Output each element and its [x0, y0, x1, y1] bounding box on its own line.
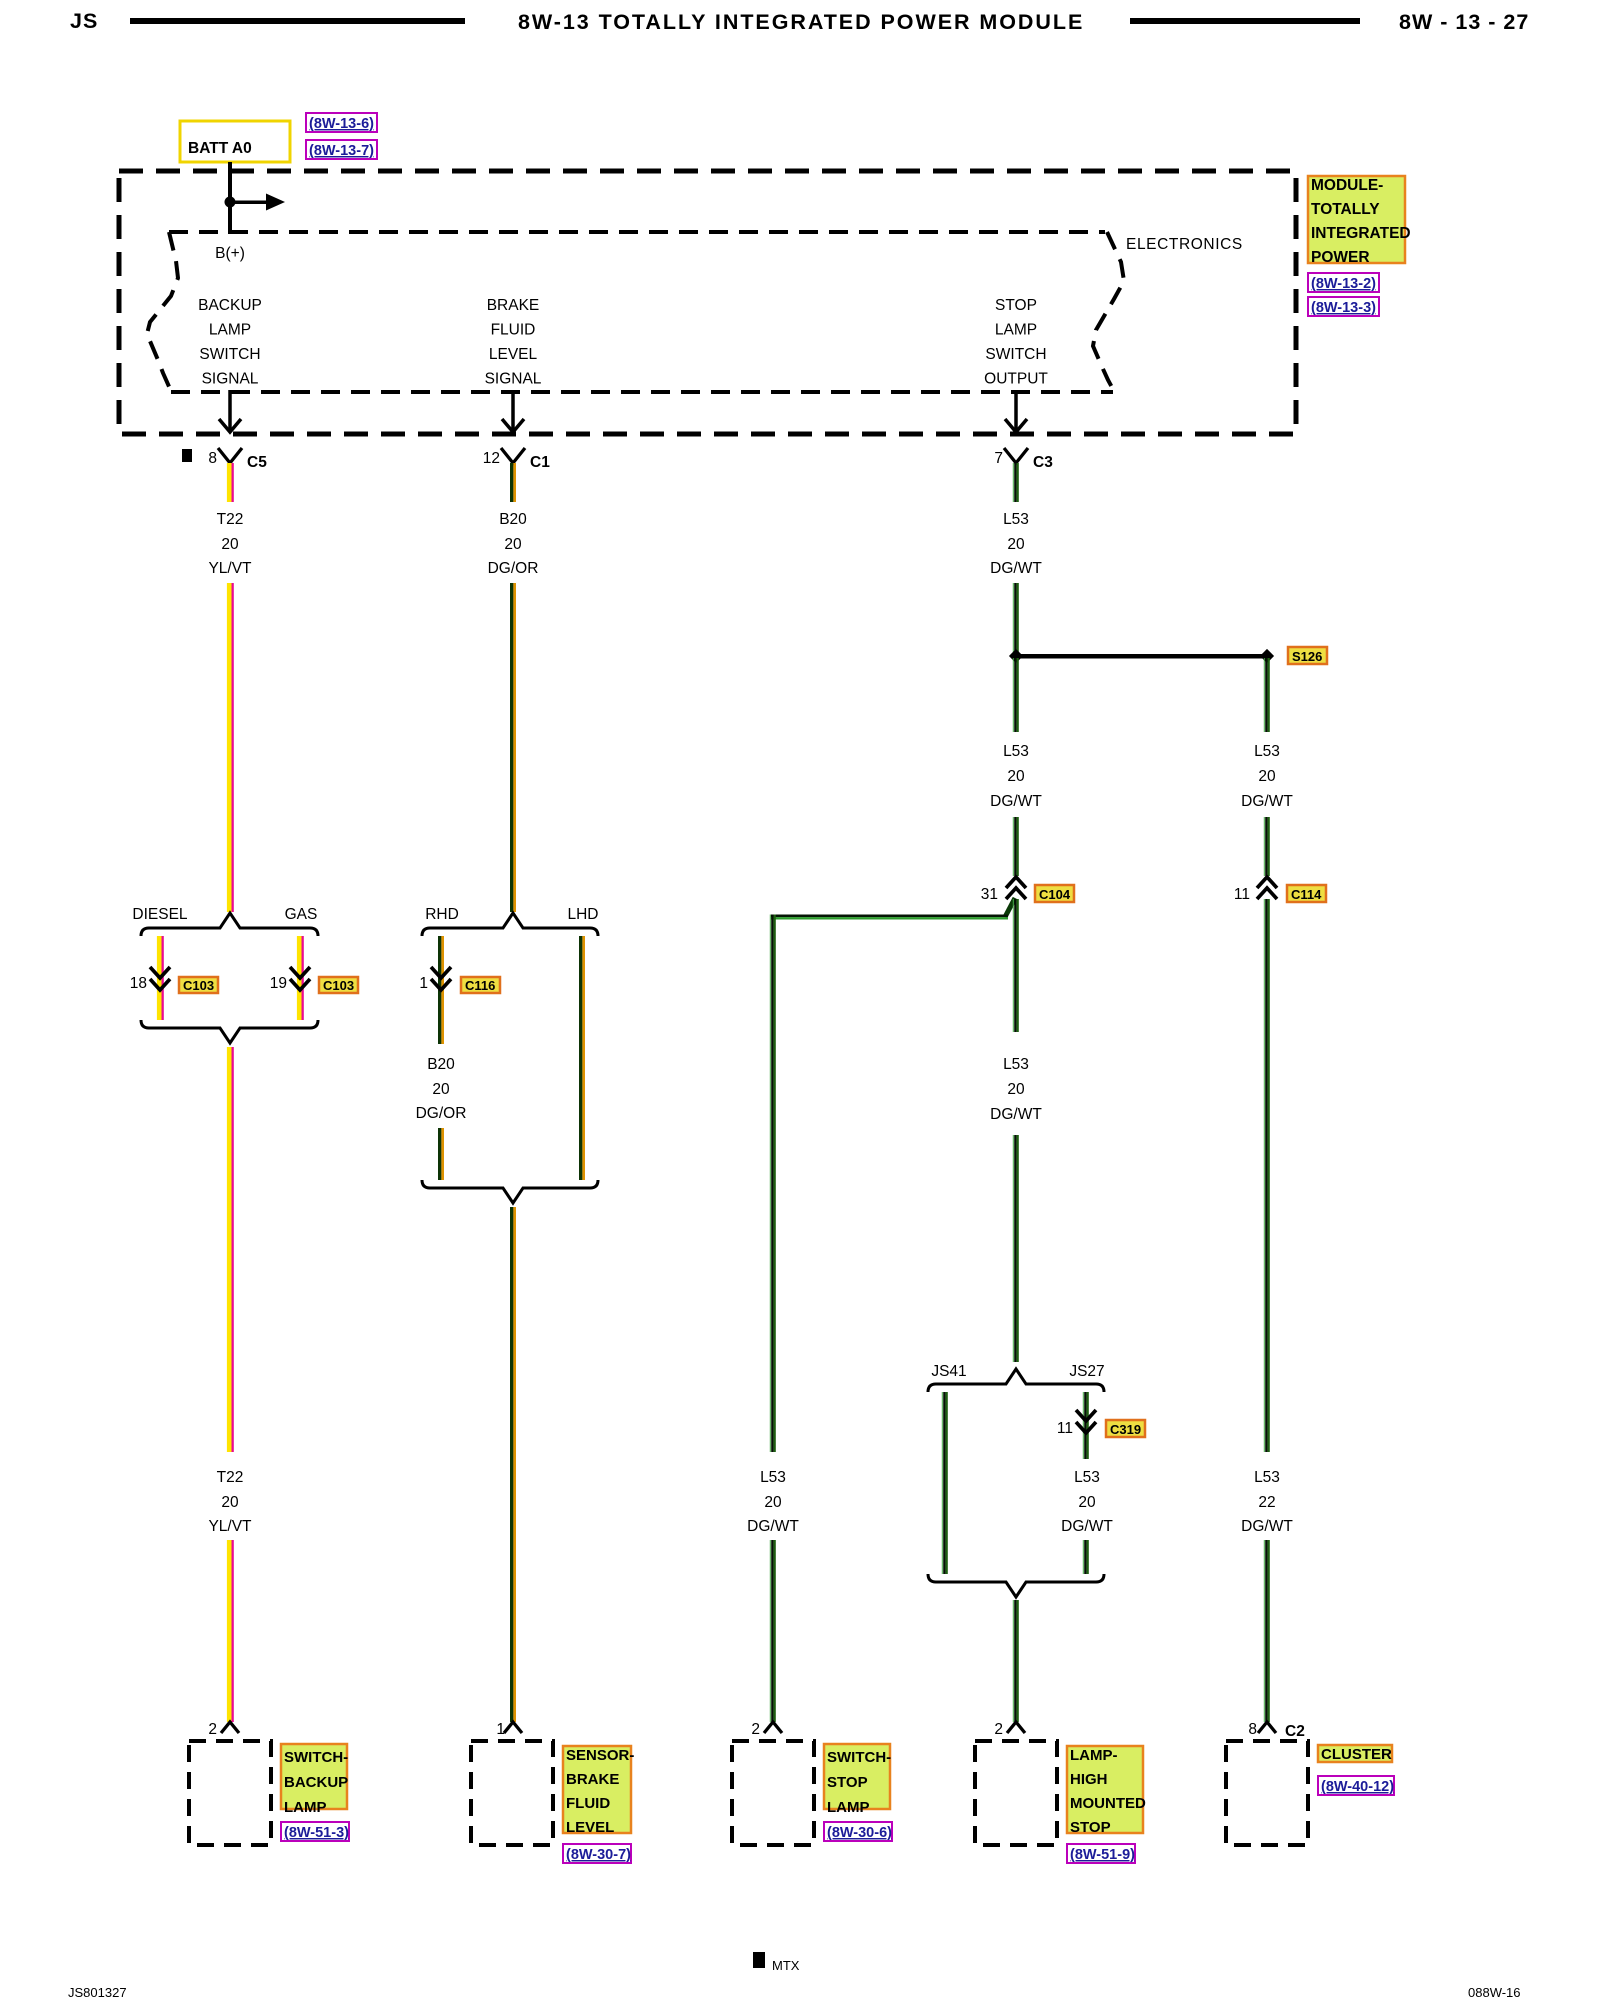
svg-text:FLUID: FLUID — [491, 322, 536, 339]
svg-text:T22: T22 — [217, 1469, 244, 1486]
wire B20 20 DG/OR upper segment — [510, 463, 516, 502]
node B+ junction — [225, 197, 236, 208]
svg-text:LAMP: LAMP — [995, 322, 1037, 339]
wire L53 20 DG/WT upper segment — [1013, 463, 1019, 502]
svg-text:2: 2 — [208, 1721, 217, 1738]
svg-text:11: 11 — [1234, 886, 1250, 903]
component label SENSOR-BRAKE FLUID LEVEL — [563, 1746, 631, 1833]
splice S126 — [1016, 654, 1267, 659]
svg-text:HIGH: HIGH — [1070, 1771, 1108, 1788]
svg-text:STOP: STOP — [1070, 1819, 1111, 1836]
svg-text:LHD: LHD — [567, 906, 598, 923]
brace diesel/gas split — [141, 913, 318, 936]
module label MODULE-TOTALLY INTEGRATED POWER — [1308, 176, 1405, 263]
svg-text:L53: L53 — [1003, 1056, 1029, 1073]
svg-text:C5: C5 — [247, 454, 267, 471]
wire L53 20 DG/WT to splice — [1013, 583, 1019, 656]
svg-text:18: 18 — [130, 975, 147, 992]
svg-text:C3: C3 — [1033, 454, 1053, 471]
svg-text:INTEGRATED: INTEGRATED — [1311, 225, 1411, 242]
svg-text:BRAKE: BRAKE — [566, 1771, 619, 1788]
wire lhd branch — [579, 936, 585, 1180]
svg-text:(8W-13-7): (8W-13-7) — [309, 143, 374, 159]
link 8W-30-6 — [824, 1822, 892, 1841]
svg-text:STOP: STOP — [827, 1774, 868, 1791]
link 8W-13-7 — [306, 140, 377, 159]
svg-text:8W - 13 - 27: 8W - 13 - 27 — [1399, 10, 1529, 34]
wire L53 20 DG/WT to JS split — [1013, 1135, 1019, 1362]
link 8W-51-9 — [1067, 1844, 1135, 1863]
svg-text:FLUID: FLUID — [566, 1795, 610, 1812]
svg-text:C103: C103 — [323, 978, 354, 993]
brace rhd/lhd merge — [422, 1180, 598, 1203]
svg-text:TOTALLY: TOTALLY — [1311, 201, 1380, 218]
wire L53 20 DG/WT below C104 — [1013, 899, 1019, 1032]
svg-text:(8W-13-3): (8W-13-3) — [1311, 300, 1376, 316]
wire stop lamp switch vertical to label — [770, 915, 776, 1453]
svg-text:20: 20 — [221, 536, 239, 553]
svg-text:20: 20 — [221, 1494, 239, 1511]
svg-text:CLUSTER: CLUSTER — [1321, 1746, 1392, 1763]
svg-text:(8W-30-6): (8W-30-6) — [827, 1825, 892, 1841]
svg-text:20: 20 — [504, 536, 522, 553]
wire L53 20 DG/WT into C104 — [1013, 817, 1019, 876]
svg-text:DG/WT: DG/WT — [990, 793, 1042, 810]
wire BATT A0 feed into module — [228, 162, 232, 234]
link 8W-13-2 — [1308, 273, 1379, 292]
module internal connector torn left edge — [147, 232, 178, 391]
svg-text:8: 8 — [1248, 1721, 1257, 1738]
ground reference square — [182, 449, 192, 462]
battery feed box BATT A0 — [180, 121, 290, 162]
svg-text:20: 20 — [1258, 768, 1276, 785]
wire L53 to lamp-high mounted stop — [1013, 1600, 1019, 1722]
svg-text:BACKUP: BACKUP — [284, 1774, 348, 1791]
svg-text:MTX: MTX — [772, 1958, 800, 1973]
svg-text:20: 20 — [1007, 768, 1025, 785]
module internal connector torn right edge — [1093, 232, 1124, 391]
svg-text:T22: T22 — [217, 511, 244, 528]
link 8W-30-7 — [563, 1844, 631, 1863]
svg-text:L53: L53 — [1003, 511, 1029, 528]
wire T22 20 YL/VT to diesel/gas split — [227, 583, 234, 912]
wire gas branch — [297, 936, 304, 1020]
wire B20 20 DG/OR to sensor-brake fluid level — [510, 1207, 516, 1722]
svg-text:LAMP-: LAMP- — [1070, 1747, 1118, 1764]
svg-text:DG/WT: DG/WT — [990, 560, 1042, 577]
svg-text:C103: C103 — [183, 978, 214, 993]
svg-text:JS801327: JS801327 — [68, 1985, 127, 2000]
wire L53 22 DG/WT to cluster — [1264, 1540, 1270, 1722]
svg-text:SIGNAL: SIGNAL — [202, 371, 259, 388]
wire T22 20 YL/VT upper segment — [227, 463, 234, 502]
wire B20 20 DG/OR to rhd/lhd split — [510, 583, 516, 912]
svg-text:STOP: STOP — [995, 297, 1037, 314]
brace rhd/lhd split — [422, 913, 598, 936]
wire rhd branch upper — [438, 936, 444, 1044]
svg-text:S126: S126 — [1292, 649, 1322, 664]
svg-text:DG/WT: DG/WT — [990, 1106, 1042, 1123]
svg-text:LEVEL: LEVEL — [489, 346, 538, 363]
svg-text:20: 20 — [1007, 1081, 1025, 1098]
link 8W-13-6 — [306, 113, 377, 132]
svg-text:C2: C2 — [1285, 1723, 1305, 1740]
wire arrow backup lamp switch signal output — [228, 390, 232, 431]
svg-text:SWITCH-: SWITCH- — [284, 1749, 348, 1766]
wire rhd branch lower — [438, 1128, 444, 1180]
svg-text:YL/VT: YL/VT — [208, 560, 252, 577]
svg-text:8W-13 TOTALLY INTEGRATED POWER: 8W-13 TOTALLY INTEGRATED POWER MODULE — [518, 10, 1084, 34]
component label SWITCH-STOP LAMP — [824, 1744, 890, 1809]
wire arrow stop lamp switch output — [1014, 390, 1018, 431]
svg-text:DG/WT: DG/WT — [1241, 1518, 1293, 1535]
svg-text:ELECTRONICS: ELECTRONICS — [1126, 236, 1243, 253]
svg-text:MOUNTED: MOUNTED — [1070, 1795, 1146, 1812]
svg-text:LAMP: LAMP — [284, 1799, 327, 1816]
svg-text:1: 1 — [496, 1721, 505, 1738]
wire stop lamp branch elbow at C104 — [1005, 898, 1015, 917]
wire to switch-stop lamp — [770, 1540, 776, 1722]
switch-stop lamp dashed box — [732, 1741, 814, 1845]
svg-text:(8W-51-3): (8W-51-3) — [284, 1825, 349, 1841]
svg-text:088W-16: 088W-16 — [1468, 1985, 1521, 2000]
wire JS41 branch — [942, 1392, 948, 1574]
svg-text:22: 22 — [1258, 1494, 1275, 1511]
component label LAMP-HIGH MOUNTED STOP — [1067, 1746, 1143, 1833]
svg-text:LAMP: LAMP — [209, 322, 251, 339]
svg-text:2: 2 — [994, 1721, 1003, 1738]
svg-text:DIESEL: DIESEL — [132, 906, 188, 923]
svg-text:C1: C1 — [530, 454, 550, 471]
svg-text:BRAKE: BRAKE — [487, 297, 540, 314]
wire diesel branch — [157, 936, 164, 1020]
svg-text:20: 20 — [432, 1081, 450, 1098]
svg-text:SWITCH: SWITCH — [199, 346, 260, 363]
svg-text:B20: B20 — [499, 511, 527, 528]
component label CLUSTER — [1318, 1745, 1392, 1762]
svg-text:C116: C116 — [465, 978, 495, 993]
svg-text:BACKUP: BACKUP — [198, 297, 262, 314]
module internal connector dashed outline bottom — [171, 390, 1113, 394]
svg-text:8: 8 — [208, 450, 217, 467]
svg-text:31: 31 — [981, 886, 998, 903]
cluster dashed box — [1226, 1741, 1308, 1845]
wire L53 22 DG/WT below C114 — [1264, 899, 1270, 1452]
wire L53 20 DG/WT into C114 — [1264, 817, 1270, 876]
wire JS27 branch upper — [1083, 1392, 1089, 1459]
svg-text:SENSOR-: SENSOR- — [566, 1747, 634, 1764]
svg-text:L53: L53 — [1254, 1469, 1280, 1486]
svg-text:20: 20 — [1007, 536, 1025, 553]
svg-text:11: 11 — [1057, 1420, 1073, 1437]
header rule left — [130, 18, 465, 24]
svg-text:MODULE-: MODULE- — [1311, 177, 1383, 194]
svg-text:12: 12 — [483, 450, 500, 467]
svg-text:SWITCH-: SWITCH- — [827, 1749, 891, 1766]
svg-text:(8W-13-2): (8W-13-2) — [1311, 276, 1376, 292]
svg-text:GAS: GAS — [285, 906, 318, 923]
footer MTX marker square — [753, 1952, 765, 1968]
switch-backup lamp dashed box — [189, 1741, 271, 1845]
svg-text:B(+): B(+) — [215, 245, 245, 262]
brace diesel/gas merge — [141, 1020, 318, 1043]
brace JS41/JS27 split — [928, 1369, 1104, 1392]
header rule right — [1130, 18, 1360, 24]
svg-text:L53: L53 — [1254, 743, 1280, 760]
module U1 TIPM outer dashed box — [119, 171, 1296, 434]
svg-text:SIGNAL: SIGNAL — [485, 371, 542, 388]
link 8W-13-3 — [1308, 297, 1379, 316]
svg-text:JS27: JS27 — [1069, 1363, 1104, 1380]
link 8W-51-3 — [281, 1822, 349, 1841]
svg-text:LEVEL: LEVEL — [566, 1819, 614, 1836]
wire B+ arrow feed — [230, 201, 268, 205]
component label SWITCH-BACKUP LAMP — [281, 1744, 347, 1809]
link 8W-40-12 — [1318, 1776, 1394, 1795]
brace JS41/JS27 merge — [928, 1574, 1104, 1597]
sensor-brake fluid level dashed box — [471, 1741, 553, 1845]
svg-text:YL/VT: YL/VT — [208, 1518, 252, 1535]
svg-text:L53: L53 — [1074, 1469, 1100, 1486]
svg-text:C104: C104 — [1039, 887, 1071, 902]
svg-text:(8W-30-7): (8W-30-7) — [566, 1847, 631, 1863]
svg-text:LAMP: LAMP — [827, 1799, 870, 1816]
svg-text:B20: B20 — [427, 1056, 455, 1073]
svg-text:7: 7 — [994, 450, 1003, 467]
wire L53 20 DG/WT splice to C104 upper — [1013, 658, 1019, 732]
svg-text:DG/OR: DG/OR — [416, 1105, 467, 1122]
svg-text:(8W-51-9): (8W-51-9) — [1070, 1847, 1135, 1863]
svg-text:L53: L53 — [1003, 743, 1029, 760]
svg-text:20: 20 — [1078, 1494, 1096, 1511]
svg-text:C319: C319 — [1110, 1422, 1141, 1437]
wire T22 20 YL/VT below merge — [227, 1047, 234, 1452]
svg-text:(8W-13-6): (8W-13-6) — [309, 116, 374, 132]
wire L53 20 DG/WT right splice branch upper — [1264, 658, 1270, 732]
svg-text:20: 20 — [764, 1494, 782, 1511]
wire T22 20 YL/VT to switch-backup lamp — [227, 1540, 234, 1722]
svg-text:19: 19 — [270, 975, 287, 992]
wire arrow brake fluid level signal output — [511, 390, 515, 431]
svg-text:C114: C114 — [1291, 887, 1322, 902]
module internal connector dashed outline top — [169, 230, 1105, 234]
wire stop lamp switch horizontal branch — [771, 915, 1008, 920]
svg-text:OUTPUT: OUTPUT — [984, 371, 1048, 388]
svg-text:JS: JS — [70, 9, 98, 33]
svg-text:DG/OR: DG/OR — [488, 560, 539, 577]
svg-text:RHD: RHD — [425, 906, 459, 923]
svg-text:POWER: POWER — [1311, 249, 1370, 266]
svg-text:L53: L53 — [760, 1469, 786, 1486]
svg-text:SWITCH: SWITCH — [985, 346, 1046, 363]
svg-text:DG/WT: DG/WT — [747, 1518, 799, 1535]
wire JS27 branch lower — [1083, 1540, 1089, 1574]
svg-text:(8W-40-12): (8W-40-12) — [1321, 1779, 1394, 1795]
svg-text:BATT A0: BATT A0 — [188, 140, 252, 157]
svg-text:DG/WT: DG/WT — [1061, 1518, 1113, 1535]
lamp-high mounted stop dashed box — [975, 1741, 1057, 1845]
svg-text:DG/WT: DG/WT — [1241, 793, 1293, 810]
svg-text:2: 2 — [751, 1721, 760, 1738]
svg-text:1: 1 — [419, 975, 428, 992]
svg-text:JS41: JS41 — [931, 1363, 966, 1380]
